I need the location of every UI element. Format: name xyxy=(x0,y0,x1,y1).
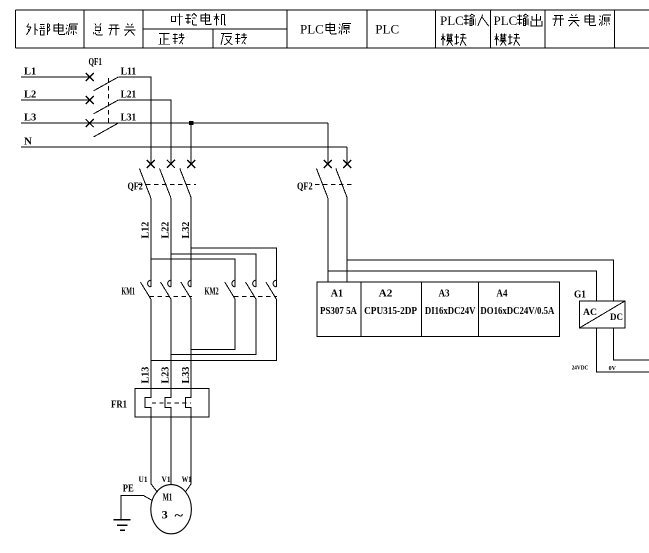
tap L12 to KM2 p1 xyxy=(151,259,235,287)
thermal relay FR1 xyxy=(135,389,209,493)
svg-text:A3: A3 xyxy=(439,289,450,300)
contact X pole1 xyxy=(324,160,332,168)
svg-text:CPU315-2DP: CPU315-2DP xyxy=(364,306,417,317)
svg-text:KM1: KM1 xyxy=(122,287,136,298)
linkage KM2 xyxy=(234,296,277,298)
svg-text:PLC: PLC xyxy=(494,13,518,28)
header cell: 叶轮电机 xyxy=(172,13,226,25)
svg-text:PLC: PLC xyxy=(440,13,464,28)
heater p2 xyxy=(165,389,171,418)
svg-text:G1: G1 xyxy=(574,290,586,301)
blade p3 xyxy=(181,282,191,299)
tap L32 to KM2 p3 xyxy=(191,248,276,287)
svg-text:PLC: PLC xyxy=(375,22,399,37)
svg-text:PE: PE xyxy=(123,483,134,494)
tap L22 to KM2 p2 xyxy=(171,254,256,287)
wire neutral to PLC xyxy=(346,198,348,282)
linkage FR1 xyxy=(152,402,191,404)
svg-text:QF1: QF1 xyxy=(89,56,103,68)
header cell: 正转 xyxy=(158,33,184,44)
header table outer and lines xyxy=(16,10,649,48)
header cell: 总开关 xyxy=(93,23,136,35)
svg-text:L23: L23 xyxy=(160,366,172,383)
motor M1 xyxy=(151,485,192,534)
svg-text:L13: L13 xyxy=(140,366,152,383)
svg-text:W1: W1 xyxy=(182,475,192,484)
contact arc p2 xyxy=(253,280,256,287)
blade pole3 xyxy=(180,168,191,197)
svg-text:DO16xDC24V/0.5A: DO16xDC24V/0.5A xyxy=(480,306,555,317)
header cell: PLC输出 模块 xyxy=(494,13,542,46)
feeder lines xyxy=(21,77,347,164)
wire L31 drop xyxy=(190,123,192,164)
svg-text:DC: DC xyxy=(610,312,623,322)
svg-text:~: ~ xyxy=(175,508,184,523)
contact arc p3 xyxy=(273,280,276,287)
contact X pole2 xyxy=(343,160,351,168)
KM2 out p3 to L13 xyxy=(151,299,276,361)
blade p2 xyxy=(161,282,171,299)
blade p2 xyxy=(246,282,256,299)
blade L3 xyxy=(94,123,119,137)
header cell: PLC输入 模块 xyxy=(440,13,489,46)
contact arc p2 xyxy=(168,280,171,287)
svg-text:DI16xDC24V: DI16xDC24V xyxy=(425,306,476,317)
wire N branch to G1 xyxy=(347,260,613,301)
svg-text:FR1: FR1 xyxy=(111,400,127,411)
blade p1 xyxy=(225,282,235,299)
wire phase to PLC xyxy=(327,198,329,282)
wire phase branch to G1 xyxy=(328,271,597,301)
header cell: 开关电源 xyxy=(553,14,611,26)
svg-text:AC: AC xyxy=(583,307,597,317)
svg-text:L2: L2 xyxy=(24,89,37,101)
contact X pole1 xyxy=(147,160,155,168)
svg-text:L32: L32 xyxy=(180,221,192,238)
blade pole2 xyxy=(336,168,347,197)
svg-text:M1: M1 xyxy=(163,493,173,504)
svg-text:0V: 0V xyxy=(609,365,617,372)
linkage QF2b xyxy=(315,183,352,185)
motor lead V xyxy=(170,417,172,485)
heater p1 xyxy=(145,389,151,418)
wire L3 xyxy=(21,122,328,124)
svg-text:A1: A1 xyxy=(331,289,343,300)
svg-text:3: 3 xyxy=(162,508,168,522)
contact X pole2 xyxy=(167,160,175,168)
svg-text:L22: L22 xyxy=(160,221,172,238)
FR1 box xyxy=(135,389,209,418)
wire L21 xyxy=(118,100,171,164)
svg-text:L31: L31 xyxy=(121,112,137,124)
blade p3 xyxy=(266,282,276,299)
KM2 out p1 to L33 xyxy=(191,299,235,350)
breaker QF2 left xyxy=(138,160,196,287)
wire 24VDC out xyxy=(597,328,649,372)
contact X L1 xyxy=(86,73,94,81)
blade pole1 xyxy=(316,168,327,197)
power supply G1 xyxy=(579,301,625,328)
contact arc p1 xyxy=(232,280,235,287)
wire L33 xyxy=(190,299,192,389)
svg-text:PS307 5A: PS307 5A xyxy=(320,306,358,317)
wire PE xyxy=(121,495,153,519)
header cell: 外部电源 xyxy=(27,23,78,35)
svg-text:QF2: QF2 xyxy=(128,181,144,193)
svg-text:L12: L12 xyxy=(140,221,152,238)
wire L23 xyxy=(170,299,172,389)
svg-text:V1: V1 xyxy=(162,475,171,484)
wire L11 xyxy=(118,77,151,164)
blade p1 xyxy=(140,282,150,299)
breaker QF2 right xyxy=(315,160,613,301)
linkage QF1 xyxy=(108,78,110,126)
svg-text:L21: L21 xyxy=(121,89,137,101)
blade pole2 xyxy=(160,168,171,197)
contactor KM1 xyxy=(140,280,192,388)
wire L31 to QF2b xyxy=(327,123,329,164)
svg-text:QF2: QF2 xyxy=(297,181,313,193)
svg-text:PLC: PLC xyxy=(300,22,324,37)
contactor KM2 xyxy=(151,248,277,361)
svg-text:A4: A4 xyxy=(496,289,507,300)
wire L22 xyxy=(170,198,172,287)
KM2 out p2 to L23 xyxy=(171,299,256,355)
svg-text:A2: A2 xyxy=(379,289,393,300)
wire L32 xyxy=(190,198,192,287)
svg-text:L33: L33 xyxy=(180,366,192,383)
svg-text:N: N xyxy=(24,136,32,148)
wire L2 xyxy=(21,99,90,101)
contact arc p3 xyxy=(188,280,191,287)
PLC rack block xyxy=(317,282,559,336)
motor lead W xyxy=(185,417,191,492)
blade L1 xyxy=(94,77,119,91)
wire L1 xyxy=(21,76,90,78)
contact arc p1 xyxy=(148,280,151,287)
svg-text:24VDC: 24VDC xyxy=(572,365,589,372)
blade L2 xyxy=(94,100,119,114)
contact X pole3 xyxy=(187,160,195,168)
wire 0V out xyxy=(613,328,649,360)
wire N to QF2b xyxy=(346,147,348,164)
linkage QF2 xyxy=(138,183,196,185)
motor lead U xyxy=(151,417,158,492)
contact X L2 xyxy=(86,96,94,104)
header cell: PLC电源 xyxy=(300,22,351,37)
linkage KM1 xyxy=(150,296,193,298)
svg-text:U1: U1 xyxy=(139,475,148,484)
header cell: 反转 xyxy=(221,33,247,45)
heater p3 xyxy=(185,389,191,418)
wire N xyxy=(21,146,347,148)
svg-text:L1: L1 xyxy=(24,66,36,78)
blade pole1 xyxy=(139,168,150,197)
wire L13 xyxy=(150,299,152,389)
wire L12 xyxy=(150,198,152,287)
breaker QF1 xyxy=(86,73,119,137)
contact X L3 xyxy=(86,119,94,127)
svg-text:L11: L11 xyxy=(121,66,137,78)
svg-text:L3: L3 xyxy=(24,112,37,124)
ground xyxy=(114,520,131,531)
svg-text:KM2: KM2 xyxy=(205,287,219,298)
node L31 junction xyxy=(189,121,193,125)
